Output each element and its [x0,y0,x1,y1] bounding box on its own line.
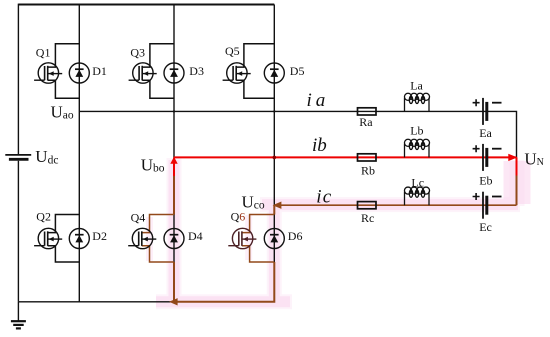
highlight glow along conduction loop [156,158,520,302]
arrow ic toward Uco [273,202,282,209]
diode D6 [264,229,284,249]
diode D5 [264,63,284,83]
svg-text:D6: D6 [288,229,303,243]
transistor Q1 body [34,63,62,83]
wire: phase-c leg through D6 (black) [273,215,275,263]
inductor La [404,93,429,111]
svg-text:Q4: Q4 [131,211,146,225]
wire: right vertical brown segment [516,176,518,206]
svg-text:Rc: Rc [361,211,374,225]
svg-text:D1: D1 [92,64,107,78]
battery Ea [473,98,502,125]
battery Udc [5,155,31,159]
wire: right vertical red segment below UN [516,157,518,175]
crossing bump ia x leg c [273,110,275,112]
transistor Q5 drain/source bracket to leg [236,44,274,99]
svg-text:Q2: Q2 [36,210,51,224]
svg-text:b: b [317,135,327,156]
inductor Lc [404,187,429,205]
svg-text:i: i [316,186,321,207]
wire: phase-b red line (ib) [174,156,517,158]
svg-text:Ec: Ec [479,220,492,234]
transistor Q4 drain/source bracket to leg [142,215,174,263]
arrow on bottom bus (left) [169,298,178,305]
wire: phase-a leg (x=79.3) [78,5,80,302]
arrow ib into UN [508,154,517,161]
svg-text:Q3: Q3 [130,46,145,60]
transistor Q5 body [223,63,251,83]
resistor Rc [358,202,377,209]
svg-text:Rb: Rb [361,164,375,178]
wire: red stub below Ubo [173,157,175,176]
wire: brown leg c from Uco node [273,205,275,214]
diode D1 [69,63,89,83]
wire: phase-b leg through D4 (black) [173,215,175,263]
transistor Q6 body [228,228,256,248]
ground [11,302,26,329]
transistor Q6 drain/source bracket to leg [242,215,274,263]
inductor Lb [404,139,429,157]
diode D2 [69,229,89,249]
red arrow up at Ubo [170,157,177,164]
battery Eb [473,144,502,171]
wire: brown path down leg b into bottom bus [173,175,175,302]
wire: phase-c brown line (ic) [274,204,516,206]
wire: phase-c leg upper (x=274.3) [273,5,275,206]
svg-text:D4: D4 [188,229,203,243]
transistor Q2 drain/source bracket to leg [48,215,80,263]
transistor Q3 drain/source bracket to leg [142,44,174,99]
wire: phase-b leg upper (x=174) [173,5,175,158]
wire: top DC bus [18,4,274,6]
wire: bottom DC bus [18,301,274,303]
svg-text:La: La [410,79,423,93]
svg-text:Lb: Lb [410,123,423,137]
svg-text:Q6: Q6 [231,210,246,224]
svg-text:a: a [316,90,326,111]
svg-text:Eb: Eb [479,174,492,188]
svg-text:Lc: Lc [411,175,424,189]
diode D3 [164,63,184,83]
transistor Q1 drain/source bracket to leg [48,44,80,99]
svg-text:Ea: Ea [479,126,492,140]
wire: brown bottom bus segment [172,262,274,302]
wire: phase-a output (ia) [79,111,516,157]
svg-text:i: i [307,90,312,111]
svg-text:c: c [323,186,332,207]
transistor Q4 body [128,228,156,248]
diode D4 [164,229,184,249]
transistor Q2 body [34,228,62,248]
svg-text:Q5: Q5 [225,44,240,58]
transistor Q3 body [129,63,157,83]
crossing bump ia x leg b [173,110,175,112]
svg-text:Ra: Ra [359,115,373,129]
svg-text:D3: D3 [189,64,204,78]
svg-text:Q1: Q1 [36,46,51,60]
resistor Ra [358,108,377,115]
resistor Rb [358,154,377,161]
wire: left DC rail (lower) [17,161,19,302]
battery Ec [473,192,502,219]
svg-text:D5: D5 [290,64,305,78]
junction dot ib x leg c [273,156,277,160]
wire: left DC rail (upper) [17,4,19,155]
svg-text:D2: D2 [92,229,107,243]
